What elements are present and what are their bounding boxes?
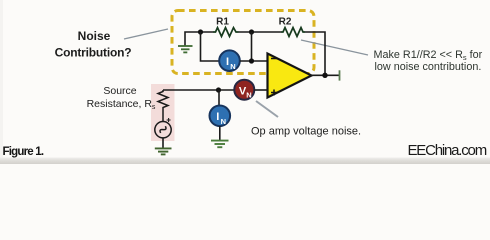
label: Source Resistance, Rs	[87, 85, 156, 111]
op-amp U1	[268, 54, 312, 98]
pointer line from Vn to note	[256, 101, 278, 117]
current noise source In (non-inverting input)	[210, 106, 231, 127]
svg-text:low noise contribution.: low noise contribution.	[375, 61, 482, 73]
node N2 (R1/R2 junction)	[249, 29, 254, 34]
resistor Rs (vertical)	[158, 90, 168, 121]
ground G1 (top-left)	[178, 46, 193, 52]
pointer line to Make R1//R2 note	[301, 40, 368, 55]
wire: top rail ground corner	[185, 32, 213, 46]
ground G2 (under In)	[211, 141, 229, 148]
label: Noise Contribution?	[55, 29, 132, 60]
svg-text:R1: R1	[216, 17, 229, 28]
output terminal tick	[339, 70, 341, 80]
node N4 (output junction)	[322, 73, 327, 78]
resistor R1	[213, 28, 239, 37]
svg-text:N: N	[246, 91, 251, 100]
wire: N1 down to In- branch	[201, 32, 219, 61]
svg-text:I: I	[226, 56, 229, 68]
svg-text:Source: Source	[103, 85, 136, 97]
highlight band behind Rs and source	[151, 84, 175, 141]
ground G3 (under source)	[155, 148, 172, 154]
wire: non-inverting rail	[163, 89, 234, 91]
svg-text:N: N	[221, 117, 226, 126]
wire: source to ground	[162, 138, 164, 148]
dashed analysis box	[172, 11, 314, 74]
svg-text:Op amp voltage noise.: Op amp voltage noise.	[251, 126, 361, 138]
svg-text:EEChina.com: EEChina.com	[407, 142, 486, 159]
svg-text:I: I	[216, 111, 219, 123]
svg-text:N: N	[230, 62, 235, 71]
svg-text:Noise: Noise	[78, 29, 111, 43]
wire: down to In+ source	[218, 90, 220, 106]
wire: output	[312, 74, 340, 76]
wire: vertical from N2 to In- wire	[251, 32, 253, 61]
source V1 (sine source)	[155, 122, 171, 138]
svg-text:R2: R2	[279, 17, 292, 28]
wire: In to inverting input	[240, 60, 268, 62]
svg-text:Contribution?: Contribution?	[55, 46, 132, 60]
svg-text:Figure 1.: Figure 1.	[3, 146, 44, 158]
plus mark at source	[167, 118, 171, 122]
label: Make R1//R2 << Rs for low noise contribution.	[374, 49, 483, 73]
wire: feedback from R2 to output	[305, 32, 325, 75]
node N1 (ground / R1 junction)	[198, 29, 203, 34]
node N3 (inverting input junction)	[249, 58, 254, 63]
svg-text:Resistance, Rs: Resistance, Rs	[87, 98, 156, 111]
wire: rail between R1 and R2	[239, 31, 282, 33]
wire: In+ source to ground	[219, 126, 221, 140]
resistor R2	[281, 28, 305, 37]
node N5 (In+ junction on rail)	[216, 87, 221, 92]
pointer line from Noise Contribution to box	[124, 29, 168, 39]
voltage noise source Vn	[234, 80, 254, 100]
current noise source In (inverting input)	[219, 50, 240, 71]
wire: Vn to non-inverting input	[254, 89, 267, 91]
